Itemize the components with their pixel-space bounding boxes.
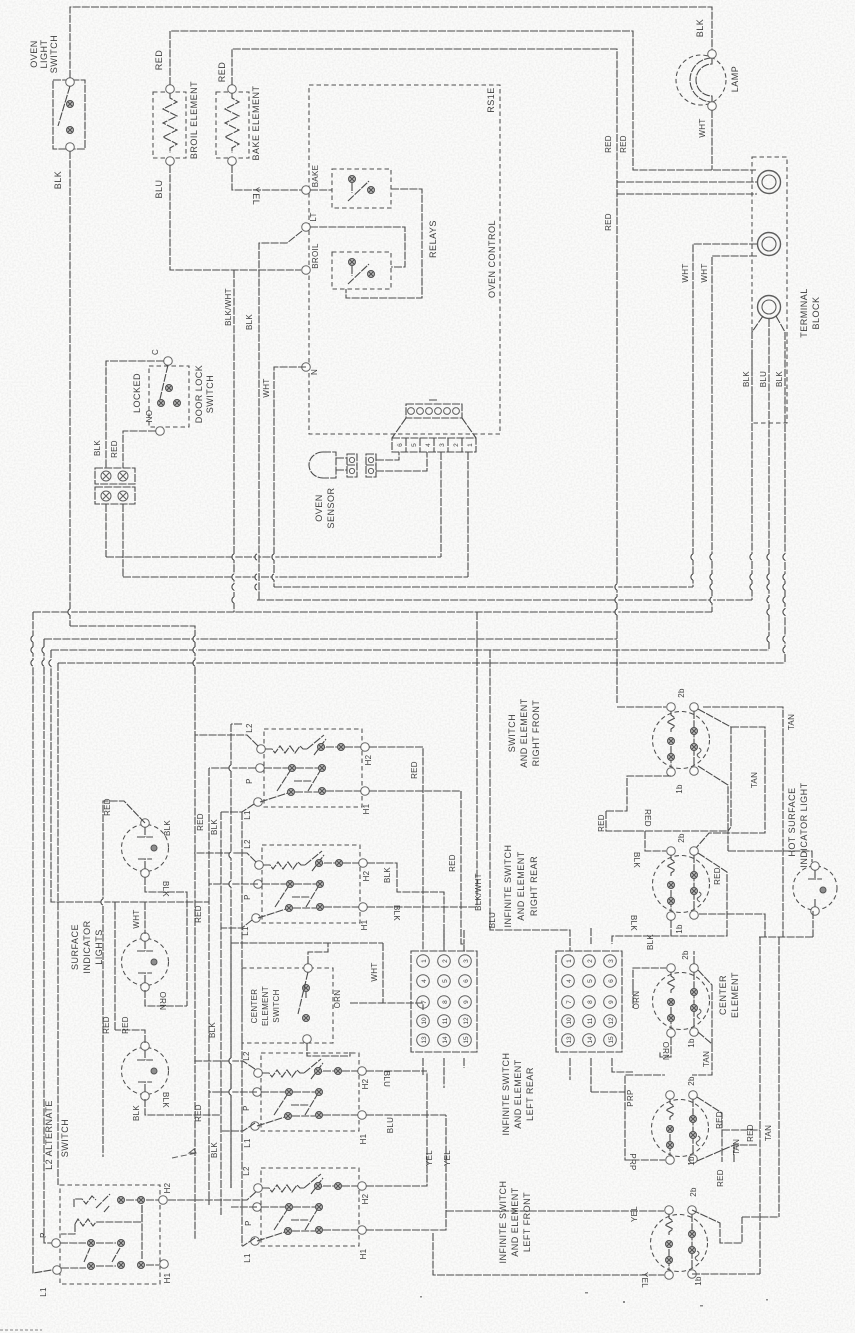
wire YEL to left front element bbox=[446, 1206, 664, 1222]
svg-text:BLK: BLK bbox=[695, 19, 705, 38]
wire BLK/WHT junction bbox=[224, 270, 234, 612]
svg-text:15: 15 bbox=[463, 1036, 470, 1044]
svg-text:L1: L1 bbox=[243, 1253, 252, 1263]
svg-text:10: 10 bbox=[566, 1017, 573, 1025]
svg-text:BLK: BLK bbox=[161, 1092, 170, 1108]
misc corridor jogs bbox=[231, 724, 242, 1188]
svg-text:P: P bbox=[243, 894, 252, 900]
left riser wire x33 bbox=[33, 612, 52, 1273]
bus wire y626 oven light BLK to switch column bbox=[70, 626, 195, 734]
svg-text:BLK: BLK bbox=[132, 1105, 141, 1121]
wire RED broil to terminal bbox=[170, 31, 756, 170]
wire ORN indicator 2 bottom bbox=[145, 990, 187, 1010]
wire BLK indicator 3 bottom bbox=[132, 1092, 221, 1121]
svg-text:L2: L2 bbox=[242, 1051, 251, 1061]
wires door lock connector down to bus bbox=[106, 504, 123, 577]
svg-text:11: 11 bbox=[587, 1017, 594, 1024]
svg-text:L1: L1 bbox=[39, 1287, 48, 1297]
svg-text:1: 1 bbox=[566, 959, 573, 963]
svg-text:L1: L1 bbox=[243, 1138, 252, 1148]
infinite switch left front bbox=[242, 1166, 370, 1263]
svg-text:5: 5 bbox=[442, 979, 449, 983]
svg-text:1b: 1b bbox=[694, 1276, 703, 1286]
svg-text:RED: RED bbox=[713, 867, 722, 885]
svg-text:BROIL ELEMENT: BROIL ELEMENT bbox=[189, 81, 199, 159]
svg-text:4: 4 bbox=[566, 979, 573, 983]
svg-text:H1: H1 bbox=[362, 803, 371, 814]
svg-text:1b: 1b bbox=[687, 1038, 696, 1048]
wire YEL left front bottom bbox=[433, 1233, 664, 1288]
svg-text:RED: RED bbox=[102, 1016, 111, 1034]
bus wire y612 left riser to lug2 WHT bbox=[33, 611, 712, 613]
svg-text:3: 3 bbox=[439, 443, 446, 447]
svg-text:TERMINAL: TERMINAL bbox=[799, 288, 809, 338]
svg-text:LEFT REAR: LEFT REAR bbox=[525, 1067, 535, 1121]
svg-text:ORN: ORN bbox=[333, 990, 342, 1009]
wire right rear bottom right riser bbox=[699, 914, 765, 937]
infinite switch left rear bbox=[242, 1051, 370, 1148]
svg-text:RED: RED bbox=[597, 814, 606, 832]
svg-text:L2: L2 bbox=[242, 1166, 251, 1176]
oven light switch S1 bbox=[29, 35, 85, 152]
svg-text:6: 6 bbox=[397, 443, 404, 447]
svg-text:8: 8 bbox=[587, 1000, 594, 1004]
svg-text:AND ELEMENT: AND ELEMENT bbox=[519, 698, 529, 768]
svg-text:AND ELEMENT: AND ELEMENT bbox=[510, 1187, 520, 1257]
terminal block lug 2 bbox=[758, 233, 781, 256]
wire RED H1 right front bbox=[369, 791, 464, 951]
svg-text:12: 12 bbox=[463, 1017, 470, 1025]
svg-text:CENTER: CENTER bbox=[250, 989, 259, 1024]
wire WHT indicator 2 top bbox=[132, 902, 145, 934]
svg-text:SWITCH: SWITCH bbox=[205, 375, 215, 414]
svg-text:P: P bbox=[242, 1105, 251, 1111]
wire TAN center element top right bbox=[694, 951, 712, 1067]
svg-text:P: P bbox=[39, 1232, 48, 1238]
wire PRP feeds left rear bbox=[625, 1075, 665, 1171]
svg-text:RS1E: RS1E bbox=[486, 87, 496, 113]
svg-text:ORN: ORN bbox=[661, 1042, 670, 1061]
terminal LT on oven control bbox=[302, 212, 318, 231]
svg-text:BLK: BLK bbox=[383, 867, 392, 883]
wire L1 right rear bbox=[221, 920, 252, 928]
bus wire y557 door lock BLK to pin3 bbox=[106, 556, 441, 558]
svg-text:11: 11 bbox=[442, 1017, 449, 1024]
lamp bbox=[676, 19, 740, 111]
svg-text:BLK: BLK bbox=[775, 371, 784, 387]
element left front bbox=[651, 1187, 708, 1286]
wire RED bake to vertical feed bbox=[232, 49, 617, 703]
svg-text:N: N bbox=[310, 369, 319, 375]
indicator light right front bbox=[122, 819, 169, 878]
wire crossover hops bbox=[31, 554, 786, 1095]
svg-text:INFINITE SWITCH: INFINITE SWITCH bbox=[503, 845, 513, 928]
svg-text:RED: RED bbox=[154, 50, 164, 71]
wire WHT lamp to terminal 1 bbox=[698, 110, 712, 170]
svg-text:1b: 1b bbox=[675, 924, 684, 934]
center element switch riser links bbox=[350, 1002, 383, 1004]
indicator light center bbox=[122, 933, 169, 992]
wires BLK BLU BLK from lug 3 bbox=[742, 316, 785, 663]
relay wiring bbox=[310, 189, 422, 298]
infinite switch and element left rear label bbox=[501, 1053, 535, 1136]
svg-text:YEL: YEL bbox=[251, 187, 261, 206]
svg-text:WHT: WHT bbox=[700, 263, 709, 282]
svg-text:SURFACE: SURFACE bbox=[70, 924, 80, 970]
svg-text:BLK/WHT: BLK/WHT bbox=[474, 873, 483, 911]
svg-text:H2: H2 bbox=[362, 870, 371, 881]
svg-text:ELEMENT: ELEMENT bbox=[730, 972, 740, 1018]
svg-text:PRP: PRP bbox=[626, 1089, 635, 1106]
infinite switch right rear bbox=[241, 839, 371, 936]
svg-text:2b: 2b bbox=[681, 950, 690, 960]
svg-text:BLU: BLU bbox=[154, 179, 164, 198]
svg-text:H2: H2 bbox=[163, 1182, 172, 1193]
svg-text:LEFT FRONT: LEFT FRONT bbox=[522, 1192, 532, 1252]
corridor wire labels bbox=[194, 813, 219, 1158]
svg-text:H1: H1 bbox=[163, 1272, 172, 1283]
left riser wire x44 to alternate switch P bbox=[44, 639, 52, 1243]
wire RED TAN risers right bbox=[746, 1124, 773, 1142]
wire BLK from LT bbox=[245, 231, 302, 600]
svg-text:RED: RED bbox=[643, 809, 652, 827]
wire BLK H2 right rear bbox=[367, 863, 444, 951]
wire door lock NO to connector bbox=[123, 431, 156, 468]
svg-text:SWITCH: SWITCH bbox=[60, 1119, 70, 1158]
door lock connector blocks bbox=[93, 440, 135, 504]
hot surface indicator light bbox=[787, 714, 837, 915]
svg-text:9: 9 bbox=[608, 1000, 615, 1004]
indicator light left bbox=[122, 1042, 169, 1101]
wire pin1 down bbox=[467, 452, 469, 577]
wire BLK/WHT riser bbox=[474, 612, 483, 911]
svg-text:RED: RED bbox=[121, 1016, 130, 1034]
wire ORN to center element bbox=[632, 968, 666, 1009]
L2 alternate switch label bbox=[44, 1100, 70, 1170]
svg-text:BLU: BLU bbox=[382, 1071, 391, 1087]
center element switch bbox=[242, 964, 333, 1044]
wire P left rear bbox=[209, 1091, 257, 1093]
svg-text:BLK: BLK bbox=[632, 852, 641, 868]
terminal BROIL on oven control bbox=[302, 243, 320, 274]
svg-text:SWITCH: SWITCH bbox=[272, 989, 281, 1022]
grid stub wires bbox=[423, 928, 633, 1092]
svg-text:YEL: YEL bbox=[640, 1272, 649, 1288]
bus wire y600 BLK LT to lug3 bbox=[257, 599, 752, 601]
svg-text:RED: RED bbox=[217, 62, 227, 83]
svg-text:WHT: WHT bbox=[262, 378, 271, 397]
svg-text:BLK: BLK bbox=[245, 314, 254, 330]
svg-text:WHT: WHT bbox=[132, 909, 141, 928]
svg-text:BLU: BLU bbox=[386, 1117, 395, 1133]
wire BLK from oven light switch to bus bbox=[53, 151, 70, 626]
svg-text:ORN: ORN bbox=[158, 992, 167, 1011]
svg-text:BLU: BLU bbox=[488, 912, 497, 928]
svg-text:BLK: BLK bbox=[646, 934, 655, 950]
svg-text:2: 2 bbox=[442, 959, 449, 963]
svg-text:SENSOR: SENSOR bbox=[326, 487, 336, 528]
relay K1 bake bbox=[332, 169, 391, 208]
svg-text:1b: 1b bbox=[675, 784, 684, 794]
svg-text:RED: RED bbox=[716, 1169, 725, 1187]
svg-text:3: 3 bbox=[463, 959, 470, 963]
svg-text:BLK/WHT: BLK/WHT bbox=[224, 288, 233, 326]
svg-text:H1: H1 bbox=[359, 1248, 368, 1259]
svg-text:LOCKED: LOCKED bbox=[132, 373, 142, 413]
svg-text:P: P bbox=[244, 1220, 253, 1226]
svg-text:RED: RED bbox=[196, 813, 205, 831]
wire ORN center switch bottom bbox=[307, 1043, 350, 1056]
svg-text:2b: 2b bbox=[677, 688, 686, 698]
svg-text:4: 4 bbox=[421, 979, 428, 983]
oven control box bbox=[309, 85, 500, 434]
door lock switch bbox=[132, 349, 215, 435]
svg-text:RED: RED bbox=[410, 761, 419, 779]
svg-text:RED: RED bbox=[194, 905, 203, 923]
wire RED H2 right front bbox=[369, 747, 423, 951]
svg-text:BLK: BLK bbox=[161, 881, 170, 897]
svg-text:L2 ALTERNATE: L2 ALTERNATE bbox=[44, 1100, 54, 1170]
svg-text:6: 6 bbox=[463, 979, 470, 983]
svg-text:HOT SURFACE: HOT SURFACE bbox=[787, 787, 797, 856]
wire BLK H1 right rear bbox=[367, 905, 477, 921]
bus wire y639 to RED riser bbox=[44, 638, 617, 640]
svg-text:PRP: PRP bbox=[628, 1153, 637, 1170]
svg-text:BLU: BLU bbox=[759, 371, 768, 387]
svg-text:YEL: YEL bbox=[630, 1206, 639, 1222]
svg-text:2b: 2b bbox=[689, 1187, 698, 1197]
oven sensor wires to pins bbox=[376, 452, 427, 471]
svg-text:L1: L1 bbox=[243, 810, 252, 820]
svg-text:H2: H2 bbox=[364, 754, 373, 765]
svg-text:BLK: BLK bbox=[163, 820, 172, 836]
svg-text:RED: RED bbox=[604, 135, 613, 153]
svg-text:LT: LT bbox=[309, 212, 318, 221]
svg-text:1b: 1b bbox=[687, 1156, 696, 1166]
svg-text:WHT: WHT bbox=[681, 263, 690, 282]
svg-text:2b: 2b bbox=[677, 833, 686, 843]
svg-text:H1: H1 bbox=[359, 1133, 368, 1144]
svg-text:WHT: WHT bbox=[698, 118, 707, 137]
svg-text:RED: RED bbox=[110, 440, 119, 458]
svg-text:BLK: BLK bbox=[208, 1022, 217, 1038]
svg-text:AND ELEMENT: AND ELEMENT bbox=[513, 1059, 523, 1129]
left riser wire x51 bbox=[51, 650, 209, 902]
wire door lock C to connector bbox=[106, 361, 164, 468]
bake element R2 bbox=[216, 62, 261, 166]
wires WHT to lug 2 bbox=[681, 244, 757, 612]
wire WHT to connector grid 1 bbox=[370, 943, 423, 1010]
bus wire y587 WHT N to lug2 bbox=[274, 586, 693, 588]
element right front bbox=[653, 688, 710, 794]
svg-text:DOOR LOCK: DOOR LOCK bbox=[194, 365, 204, 424]
svg-text:1: 1 bbox=[467, 443, 474, 447]
svg-text:1: 1 bbox=[421, 959, 428, 963]
svg-text:7: 7 bbox=[421, 1000, 428, 1004]
wire ORN center element bottom bbox=[660, 1037, 671, 1060]
wire YEL H2 left front bbox=[366, 1072, 434, 1186]
wire TAN right front element to hot light loop bbox=[696, 707, 812, 937]
svg-text:RIGHT REAR: RIGHT REAR bbox=[529, 856, 539, 916]
arrow annotation bbox=[172, 1153, 196, 1158]
terminal BAKE on oven control bbox=[302, 165, 320, 195]
svg-text:RED: RED bbox=[448, 854, 457, 872]
svg-text:15: 15 bbox=[608, 1036, 615, 1044]
svg-text:BLK: BLK bbox=[53, 171, 63, 190]
wire left front bottom right loop bbox=[692, 1210, 760, 1274]
svg-text:YEL: YEL bbox=[425, 1150, 434, 1166]
svg-text:12: 12 bbox=[608, 1017, 615, 1025]
svg-text:7: 7 bbox=[566, 1000, 573, 1004]
svg-text:BLK: BLK bbox=[210, 1142, 219, 1158]
oven control plug connector P1 bbox=[392, 400, 476, 438]
terminal block lug 3 bbox=[758, 296, 781, 319]
wire RED right rear to hot light bbox=[612, 853, 727, 944]
wire L1 left front bbox=[242, 1238, 255, 1246]
svg-text:2: 2 bbox=[587, 959, 594, 963]
wire BLU H2 left rear bbox=[366, 1071, 427, 1087]
svg-text:SWITCH: SWITCH bbox=[49, 35, 59, 74]
svg-text:4: 4 bbox=[425, 443, 432, 447]
svg-text:3: 3 bbox=[608, 959, 615, 963]
svg-text:INFINITE SWITCH: INFINITE SWITCH bbox=[501, 1053, 511, 1136]
svg-text:RELAYS: RELAYS bbox=[428, 220, 438, 258]
wire L1 left rear bbox=[221, 1123, 255, 1131]
svg-text:H2: H2 bbox=[361, 1078, 370, 1089]
wire P left front bbox=[231, 1206, 257, 1208]
svg-text:5: 5 bbox=[411, 443, 418, 447]
connector grid right bbox=[556, 951, 622, 1052]
scan specks bbox=[420, 1292, 768, 1307]
svg-text:BLK: BLK bbox=[392, 905, 401, 921]
svg-text:AND ELEMENT: AND ELEMENT bbox=[516, 851, 526, 921]
surface indicator lights label bbox=[70, 920, 104, 973]
svg-text:14: 14 bbox=[442, 1036, 449, 1044]
svg-text:TAN: TAN bbox=[787, 714, 796, 730]
svg-text:INDICATOR LIGHT: INDICATOR LIGHT bbox=[799, 782, 809, 867]
element left rear bbox=[652, 1076, 709, 1166]
relay K2 broil bbox=[332, 252, 391, 289]
wire L2 right rear bbox=[194, 853, 256, 862]
svg-text:BLK: BLK bbox=[629, 915, 638, 931]
bus wire y663 BLK bbox=[58, 662, 785, 664]
wire P right front bbox=[209, 767, 256, 769]
wire BLU H1 left rear bbox=[366, 1115, 446, 1133]
wire L1 right front bbox=[221, 804, 254, 812]
svg-text:TAN: TAN bbox=[732, 1139, 741, 1155]
wire top bus L to lamp bbox=[70, 7, 712, 78]
svg-text:RED: RED bbox=[103, 798, 112, 816]
wires right edge risers bbox=[742, 911, 813, 1274]
svg-text:TAN: TAN bbox=[750, 772, 759, 788]
wire YEL bake bottom to bake relay bbox=[232, 165, 302, 205]
svg-text:LIGHT: LIGHT bbox=[39, 39, 49, 68]
element right rear bbox=[653, 833, 710, 934]
svg-text:L2: L2 bbox=[243, 839, 252, 849]
svg-text:BLOCK: BLOCK bbox=[811, 296, 821, 329]
wire TAN left rear bottom bbox=[697, 1139, 758, 1187]
svg-text:13: 13 bbox=[566, 1036, 573, 1044]
svg-text:RED: RED bbox=[746, 1124, 755, 1142]
svg-text:RED: RED bbox=[715, 1111, 724, 1129]
page edge artifact bbox=[0, 1329, 42, 1331]
svg-text:BLK: BLK bbox=[210, 819, 219, 835]
oven sensor bbox=[309, 452, 376, 529]
bus wire y650 BLU bbox=[51, 649, 769, 651]
svg-text:YEL: YEL bbox=[443, 1150, 452, 1166]
connector grid left bbox=[411, 951, 477, 1052]
wires RED RED to indicator 3 bbox=[102, 902, 145, 1043]
svg-text:ELEMENT: ELEMENT bbox=[261, 986, 270, 1026]
terminal block outline bbox=[752, 157, 821, 423]
terminal N on oven control bbox=[302, 363, 319, 375]
svg-text:6: 6 bbox=[608, 979, 615, 983]
wire BLU riser bbox=[488, 650, 570, 951]
svg-text:LAMP: LAMP bbox=[730, 66, 740, 93]
svg-text:L2: L2 bbox=[245, 723, 254, 733]
svg-text:13: 13 bbox=[421, 1036, 428, 1044]
infinite switch right front bbox=[243, 723, 373, 820]
svg-text:OVEN: OVEN bbox=[29, 40, 39, 68]
wire L2 left rear bbox=[194, 1061, 255, 1069]
svg-text:OVEN CONTROL: OVEN CONTROL bbox=[487, 220, 497, 298]
svg-text:OVEN: OVEN bbox=[314, 494, 324, 522]
left riser wire x58 bbox=[57, 663, 59, 1185]
element center bbox=[653, 950, 741, 1048]
svg-text:INFINITE SWITCH: INFINITE SWITCH bbox=[498, 1181, 508, 1264]
oven control socket pins 6 5 4 3 2 1 bbox=[392, 438, 476, 452]
svg-text:8: 8 bbox=[442, 1000, 449, 1004]
wire L2 right front bbox=[195, 735, 258, 746]
svg-text:RED: RED bbox=[194, 1104, 203, 1122]
svg-text:RIGHT FRONT: RIGHT FRONT bbox=[531, 700, 541, 767]
infinite switch and element left front label bbox=[498, 1181, 532, 1264]
svg-text:BAKE ELEMENT: BAKE ELEMENT bbox=[251, 85, 261, 160]
wire center element bottom right riser bbox=[692, 1032, 712, 1075]
svg-text:BROIL: BROIL bbox=[311, 243, 320, 269]
alternate switch box bbox=[39, 1182, 172, 1296]
svg-text:2b: 2b bbox=[687, 1076, 696, 1086]
svg-text:5: 5 bbox=[587, 979, 594, 983]
svg-text:14: 14 bbox=[587, 1036, 594, 1044]
svg-text:ORN: ORN bbox=[632, 991, 641, 1010]
svg-text:10: 10 bbox=[421, 1017, 428, 1025]
terminal block lug 1 bbox=[758, 171, 781, 194]
wire BLK right rear bottom bbox=[629, 915, 671, 950]
svg-text:CENTER: CENTER bbox=[718, 975, 728, 1015]
wire YEL H1 left front bbox=[366, 1115, 452, 1230]
wire BLK feeds right rear element bbox=[632, 831, 666, 868]
svg-text:2: 2 bbox=[453, 443, 460, 447]
svg-text:P: P bbox=[245, 778, 254, 784]
wire RED to indicator 1 bbox=[103, 798, 172, 1157]
wire ORN center switch top bbox=[231, 943, 383, 1008]
wire BLU broil bottom bbox=[154, 165, 301, 270]
svg-text:SWITCH: SWITCH bbox=[507, 714, 517, 753]
wire right front element bottom left bbox=[606, 776, 671, 827]
wire pin3 down bbox=[440, 452, 442, 557]
svg-text:WHT: WHT bbox=[370, 962, 379, 981]
svg-text:BLK: BLK bbox=[742, 371, 751, 387]
switch and element right front label bbox=[507, 698, 541, 768]
wire BLK indicator 1 bottom bbox=[145, 877, 187, 1006]
wire P right rear bbox=[209, 883, 258, 885]
bus wire y577 door lock RED to pin1 bbox=[123, 576, 468, 578]
svg-text:9: 9 bbox=[463, 1000, 470, 1004]
svg-text:C: C bbox=[151, 349, 160, 355]
svg-text:NO: NO bbox=[145, 410, 154, 423]
wire RED left rear top right bbox=[697, 1097, 760, 1162]
